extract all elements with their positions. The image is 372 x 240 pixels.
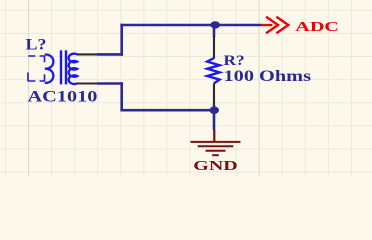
grid (decorative) <box>0 0 372 176</box>
designator L? <box>26 36 47 53</box>
transformer L? secondary winding <box>69 54 78 84</box>
transformer L? pin 1 (top) <box>77 53 98 55</box>
power port GND stem <box>213 130 215 142</box>
resistor R? pin 2 (bottom) <box>213 83 215 106</box>
wire vertical riser x=121.7 <box>120 24 123 56</box>
svg-text:R?: R? <box>224 53 245 69</box>
port label ADC <box>295 19 339 34</box>
resistor R? body zigzag <box>207 58 219 83</box>
junction dot node GND <box>209 107 219 114</box>
wire pin1 to corner <box>97 53 123 56</box>
svg-text:100 Ohms: 100 Ohms <box>224 68 312 85</box>
wire junction to resistor pin <box>213 25 216 37</box>
resistor R? pin 1 (top) <box>213 36 215 59</box>
power port GND bar 2 <box>198 145 234 147</box>
wire top rail y=25 to port <box>120 24 261 27</box>
value 100 Ohms <box>224 68 312 85</box>
wire pin2 to corner bottom <box>97 82 123 85</box>
net label GND <box>193 159 237 174</box>
svg-text:AC1010: AC1010 <box>28 89 98 106</box>
transformer L? pin 2 (bottom) <box>77 82 98 84</box>
transformer L? primary winding <box>45 55 54 83</box>
svg-text:L?: L? <box>26 36 47 53</box>
wire bottom rail y=110.2 <box>120 109 214 112</box>
designator R? <box>224 53 245 69</box>
transformer L? core <box>61 50 66 84</box>
wire vertical drop x=121.7 <box>120 82 123 110</box>
value AC1010 <box>28 89 98 106</box>
wire resistor to ground junction <box>213 105 216 130</box>
junction dot node ADC <box>210 21 220 28</box>
power port GND bar 4 <box>212 154 219 156</box>
svg-text:GND: GND <box>193 159 237 174</box>
port ADC tail <box>261 24 272 26</box>
port ADC chevron 2 <box>276 17 288 33</box>
transformer L? dashed primary box <box>28 55 45 82</box>
svg-text:ADC: ADC <box>295 19 339 34</box>
power port GND bar 1 <box>191 141 241 143</box>
power port GND bar 3 <box>206 150 226 152</box>
port ADC chevron 1 <box>266 17 278 33</box>
